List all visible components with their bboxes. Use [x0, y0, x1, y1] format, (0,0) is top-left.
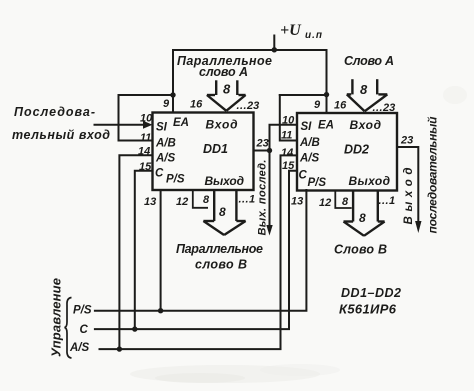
svg-text:…23: …23 — [372, 102, 395, 114]
bus arrow output DD2 — [344, 191, 385, 236]
svg-text:Вых. послед.: Вых. послед. — [257, 160, 269, 236]
wire DD2 A/B tie — [280, 94, 327, 96]
svg-text:Вход: Вход — [350, 118, 382, 132]
svg-text:11: 11 — [140, 132, 151, 144]
wire DD1 C pin 15 — [135, 171, 153, 329]
svg-text:15: 15 — [282, 160, 295, 172]
svg-text:A/S: A/S — [299, 153, 320, 165]
bus arrow output DD1 — [203, 190, 245, 235]
svg-text:слово В: слово В — [195, 258, 247, 272]
wire DD2 A/B riser — [280, 95, 297, 141]
arrowhead serial input DD1 — [143, 121, 153, 129]
svg-text:12: 12 — [319, 197, 331, 209]
svg-text:последовательный: последовательный — [426, 116, 440, 234]
wire DD1 pin 23 serial out — [254, 150, 270, 152]
svg-text:16: 16 — [334, 100, 347, 112]
svg-text:P/S: P/S — [166, 174, 185, 186]
scan smudges (decorative) — [130, 86, 467, 383]
svg-text:A/B: A/B — [299, 137, 320, 149]
wire top supply bus — [173, 49, 327, 51]
wire DD1 P/S pin 13 — [160, 190, 162, 311]
wire DD1 pin 9 drop — [172, 50, 174, 113]
junction DD1 EA tie — [170, 92, 175, 97]
junction DD2 EA tie — [324, 92, 329, 97]
svg-text:8: 8 — [219, 205, 226, 219]
svg-text:23: 23 — [400, 135, 413, 147]
junction pin13/PS line — [158, 308, 163, 313]
svg-text:8: 8 — [223, 82, 231, 97]
wire A/S control line — [100, 155, 298, 349]
svg-text:DD1: DD1 — [203, 142, 228, 156]
brace — [65, 298, 72, 359]
wire DD1 A/B tie — [119, 94, 174, 96]
wire DD1 SI input line — [95, 124, 145, 126]
svg-text:тельный вход: тельный вход — [12, 128, 110, 142]
svg-text:C: C — [299, 170, 308, 182]
svg-text:и.п: и.п — [305, 30, 323, 41]
svg-text:Последова-: Последова- — [14, 105, 95, 119]
junction pin14/AS line — [117, 346, 122, 351]
svg-text:C: C — [155, 168, 164, 180]
svg-text:9: 9 — [314, 99, 321, 111]
svg-text:13: 13 — [144, 196, 156, 208]
svg-text:11: 11 — [281, 130, 292, 142]
wire DD1 A/S pin 14 — [119, 155, 152, 349]
junction serial split — [267, 148, 272, 153]
pin 12 lead DD1 — [193, 190, 208, 208]
wire C control line — [95, 171, 297, 329]
svg-text:14: 14 — [281, 147, 293, 159]
wire P/S control line — [95, 190, 307, 311]
svg-text:10: 10 — [282, 115, 295, 127]
arrowhead DD2 serial out — [415, 221, 421, 233]
svg-text:Параллельное: Параллельное — [176, 242, 263, 256]
svg-text:Слово А: Слово А — [344, 54, 394, 68]
svg-text:SI: SI — [156, 122, 168, 134]
wire DD1 A/B riser — [119, 95, 153, 141]
svg-text:P/S: P/S — [73, 305, 92, 317]
IC DD2 body — [297, 113, 397, 191]
svg-text:8: 8 — [203, 194, 210, 206]
svg-text:C: C — [80, 324, 89, 336]
svg-text:16: 16 — [190, 99, 203, 111]
wire DD2 pin 9 drop — [326, 50, 328, 113]
svg-text:13: 13 — [291, 196, 303, 208]
svg-text:Вход: Вход — [206, 118, 238, 132]
junction pin15/C line — [132, 326, 137, 331]
svg-text:…1: …1 — [378, 195, 395, 207]
junction +U/bus — [272, 47, 277, 52]
svg-text:SI: SI — [301, 121, 313, 133]
svg-text:…23: …23 — [236, 100, 259, 112]
svg-text:Выход: Выход — [349, 174, 391, 188]
svg-text:9: 9 — [163, 98, 170, 110]
svg-text:+U: +U — [280, 22, 302, 39]
svg-text:EA: EA — [173, 117, 189, 129]
svg-text:8: 8 — [359, 211, 366, 225]
svg-text:P/S: P/S — [308, 177, 327, 189]
wire serial link to DD2 SI — [270, 125, 298, 151]
svg-text:10: 10 — [140, 113, 153, 125]
svg-text:DD2: DD2 — [344, 143, 369, 157]
svg-text:14: 14 — [138, 146, 150, 158]
svg-text:A/S: A/S — [69, 342, 90, 354]
svg-text:EA: EA — [318, 120, 334, 132]
arrowhead DD1 serial out — [266, 225, 272, 236]
pin 12 lead DD2 — [335, 191, 351, 209]
svg-text:8: 8 — [360, 82, 368, 97]
svg-text:DD1–DD2: DD1–DD2 — [341, 286, 401, 300]
svg-text:A/B: A/B — [155, 138, 176, 150]
svg-text:23: 23 — [256, 138, 269, 150]
wire DD2 pin 23 serial out — [397, 147, 418, 222]
svg-text:15: 15 — [139, 161, 152, 173]
svg-text:8: 8 — [342, 196, 349, 208]
svg-text:…1: …1 — [238, 194, 255, 206]
svg-text:A/S: A/S — [155, 153, 176, 165]
svg-text:Выход: Выход — [205, 174, 245, 188]
op-amp U? : IC DD1 body — [153, 113, 254, 191]
svg-text:К561ИР6: К561ИР6 — [339, 302, 397, 317]
svg-text:Управление: Управление — [49, 278, 64, 357]
node +U power lead — [273, 36, 275, 51]
bus arrow input DD2 — [347, 79, 388, 111]
svg-text:12: 12 — [176, 196, 188, 208]
svg-text:слово А: слово А — [199, 65, 248, 79]
svg-text:Слово В: Слово В — [334, 243, 387, 257]
bus arrow input DD1 — [207, 80, 246, 111]
wire serial out down — [269, 151, 271, 227]
